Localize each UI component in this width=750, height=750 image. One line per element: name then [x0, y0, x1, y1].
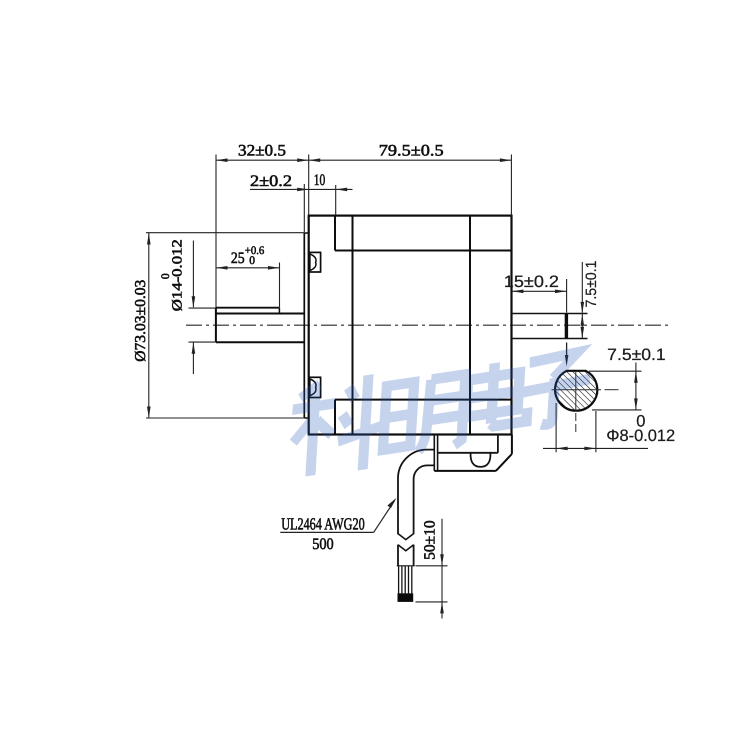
svg-text:Ø14-0.012: Ø14-0.012: [171, 239, 186, 311]
dimension 25 +0.6/0: [216, 245, 280, 307]
svg-text:32±0.5: 32±0.5: [238, 142, 286, 159]
svg-text:0: 0: [249, 255, 255, 267]
centerline main axis: [186, 324, 670, 326]
rear shaft top edge: [512, 313, 588, 315]
dimension 2±0.2 leader and 10: [250, 172, 353, 232]
dimension Ø73.03±0.03: [133, 233, 304, 418]
top chamfer line: [335, 250, 512, 252]
svg-text:25: 25: [231, 250, 245, 267]
char 子: [521, 350, 592, 428]
section leader arrow: [566, 343, 568, 360]
char 明: [382, 374, 465, 456]
circle centerline horizontal: [552, 389, 602, 391]
motor body outline: [309, 216, 512, 435]
svg-text:500: 500: [312, 536, 334, 553]
front shaft flat top: [216, 307, 280, 309]
mounting screw hole lower: [310, 377, 321, 397]
leader UL2464 AWG20 500: [280, 498, 396, 553]
boss top edge: [304, 232, 308, 234]
terminal box bottom: [434, 470, 496, 472]
dimension Ø14 -0.012/0: [160, 239, 216, 374]
top corner step: [334, 216, 336, 251]
svg-text:7.5±0.1: 7.5±0.1: [607, 346, 665, 364]
terminal box notch: [471, 453, 491, 467]
rear shaft bottom edge: [512, 338, 588, 340]
cable lower jacket: [397, 545, 399, 566]
front shaft tip face: [215, 307, 217, 342]
watermark 科明电子: [288, 341, 592, 480]
front endbell divider: [352, 216, 354, 435]
terminal box inner wall: [497, 435, 499, 453]
front shaft flat step: [278, 308, 280, 314]
char 电: [465, 358, 530, 431]
shaft cross-section circle with flat: [555, 371, 597, 411]
boss bottom edge: [304, 417, 308, 419]
rear endbell divider: [469, 216, 471, 435]
rear shaft end face: [565, 314, 568, 339]
svg-text:7.5±0.1: 7.5±0.1: [583, 261, 600, 308]
cable inner edge: [414, 465, 435, 534]
front shaft top edge: [216, 313, 304, 315]
mounting screw hole upper: [310, 252, 321, 272]
svg-text:Ø73.03±0.03: Ø73.03±0.03: [133, 280, 149, 362]
svg-text:15±0.2: 15±0.2: [504, 273, 559, 291]
cable outer edge: [398, 450, 434, 535]
stripped wires: [399, 566, 412, 594]
bottom chamfer line: [335, 399, 512, 401]
svg-text:0: 0: [160, 273, 172, 279]
front shaft bottom edge: [216, 341, 304, 343]
circle centerline vertical: [575, 371, 577, 411]
dimension 7.5±0.1 rear shaft: [581, 261, 601, 339]
svg-text:10: 10: [314, 172, 326, 189]
dimension 32±0.5: [216, 142, 309, 307]
svg-text:UL2464 AWG20: UL2464 AWG20: [281, 514, 365, 533]
svg-text:50±10: 50±10: [422, 520, 439, 560]
terminal box left wall: [433, 435, 435, 471]
svg-text:79.5±0.5: 79.5±0.5: [379, 142, 444, 159]
dimension 50±10: [416, 519, 448, 619]
dimension 15±0.2: [504, 273, 567, 312]
dimension Φ8 -0.012/0: [543, 403, 675, 452]
bottom corner step: [334, 400, 336, 435]
jacket end: [397, 565, 415, 567]
wire tips: [398, 593, 414, 602]
terminal box mid line: [438, 452, 498, 454]
svg-text:Φ8-0.012: Φ8-0.012: [606, 427, 675, 445]
svg-text:2±0.2: 2±0.2: [250, 173, 292, 190]
pilot boss face: [303, 233, 305, 418]
terminal box right wall: [511, 435, 513, 454]
cable break lower chevron: [398, 545, 414, 551]
cable break upper chevron: [398, 534, 414, 540]
dimension 7.5±0.1 cross-section: [589, 346, 666, 410]
char 科: [288, 372, 386, 481]
terminal box chamfer: [496, 454, 512, 471]
dimension 79.5±0.5: [309, 142, 512, 215]
